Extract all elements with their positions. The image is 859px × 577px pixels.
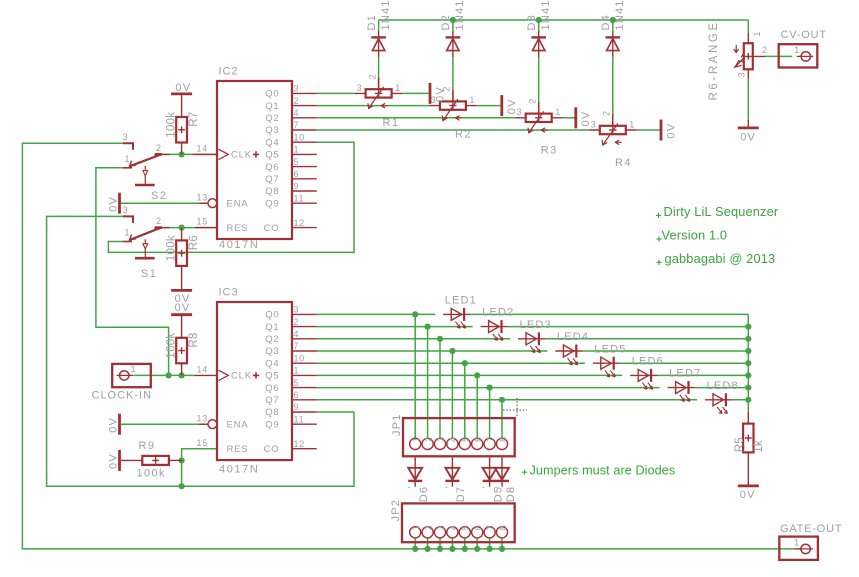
svg-text:1: 1 bbox=[629, 119, 634, 129]
IC3 left pin stubs bbox=[195, 374, 218, 376]
svg-text:2: 2 bbox=[294, 96, 300, 106]
svg-text:2: 2 bbox=[528, 99, 538, 104]
svg-text:Q0: Q0 bbox=[265, 310, 279, 321]
junction R8 bottom on CLK3 wire bbox=[179, 372, 185, 378]
switch S2 lever bbox=[130, 155, 161, 167]
junction gate rail bbox=[474, 546, 480, 552]
connector GATE-OUT box bbox=[779, 537, 818, 560]
svg-text:0V: 0V bbox=[175, 302, 191, 314]
diode triangle bbox=[533, 39, 545, 51]
IC3 pin 6 stub bbox=[292, 399, 317, 401]
svg-text:15: 15 bbox=[197, 438, 209, 448]
svg-text:0V: 0V bbox=[506, 98, 518, 114]
svg-text:Q2: Q2 bbox=[265, 334, 279, 345]
trimmer potentiometer R6-RANGE body bbox=[744, 43, 753, 69]
resistor R9 body bbox=[142, 456, 169, 465]
wire D4 vertical to rail bbox=[612, 20, 614, 31]
wire R6-RANGE pin 3 to ground bbox=[747, 79, 749, 120]
svg-text:ENA: ENA bbox=[227, 419, 249, 430]
ground 0V symbol bbox=[118, 414, 121, 435]
svg-text:GATE-OUT: GATE-OUT bbox=[780, 523, 842, 535]
svg-text:CLK: CLK bbox=[231, 150, 252, 161]
svg-text:R9: R9 bbox=[139, 440, 156, 452]
wire IC2 ENA from 0V bbox=[121, 202, 208, 204]
JP1 pin 5 circle bbox=[459, 438, 470, 449]
svg-text:10: 10 bbox=[294, 132, 306, 142]
junction R9 on RES3 vertical bbox=[179, 457, 185, 463]
svg-text:1: 1 bbox=[395, 83, 400, 93]
switch S1 pin2 red stub bbox=[162, 227, 170, 229]
svg-text:1: 1 bbox=[131, 364, 136, 374]
diode pin stubs bbox=[451, 458, 453, 487]
IC2 pin 13 red stub bbox=[199, 202, 208, 204]
JP2 pin 4 circle bbox=[447, 527, 458, 538]
svg-text:D8: D8 bbox=[505, 486, 517, 502]
R6 top stub bbox=[181, 228, 183, 241]
wire IC2 output to trimmer pin 3 bbox=[317, 129, 589, 131]
wire diode to trimmer pin 2 bbox=[538, 57, 540, 102]
R9 left stub bbox=[121, 459, 142, 461]
JP2 pin 3 circle bbox=[434, 527, 445, 538]
svg-text:R6-RANGE: R6-RANGE bbox=[708, 20, 720, 100]
wire IC3 Q5 LED row bbox=[317, 374, 749, 376]
IC3 pin 9 stub bbox=[292, 411, 317, 413]
svg-text:Q4: Q4 bbox=[265, 137, 279, 148]
svg-text:0V: 0V bbox=[665, 123, 677, 139]
svg-text:3: 3 bbox=[123, 132, 128, 142]
svg-text:100k: 100k bbox=[165, 332, 177, 358]
wire net switch S2 pin 3 to bottom gate rail bbox=[22, 143, 794, 549]
svg-text:S2: S2 bbox=[151, 190, 167, 202]
IC2 pin 3 stub bbox=[292, 92, 317, 94]
svg-text:-: - bbox=[408, 482, 411, 492]
svg-text:LED4: LED4 bbox=[557, 331, 589, 343]
junction LED row 3 bbox=[437, 336, 443, 342]
junction gate rail bbox=[437, 546, 443, 552]
junction right bus bbox=[745, 360, 751, 366]
svg-text:Q3: Q3 bbox=[265, 346, 279, 357]
diode cathode bar bbox=[445, 480, 459, 482]
trimmer potentiometer R2 body bbox=[440, 101, 466, 109]
wire JP1 pin 4 drop bbox=[451, 351, 453, 438]
switch S1 actuator bbox=[144, 239, 146, 257]
IC3 pin 7 stub bbox=[292, 350, 317, 352]
IC3 pin 4 stub bbox=[292, 338, 317, 340]
svg-text:CLK: CLK bbox=[231, 371, 252, 382]
svg-text:4017N: 4017N bbox=[219, 464, 259, 476]
junction LED row 4 bbox=[449, 348, 455, 354]
svg-text:Q5: Q5 bbox=[265, 371, 279, 382]
diode cathode bar bbox=[531, 36, 546, 38]
diode pin stubs bbox=[501, 458, 503, 487]
IC3 pin ENA name and bubble bbox=[208, 420, 217, 429]
svg-text:12: 12 bbox=[294, 218, 306, 228]
wire gate rail red stub into GATE-OUT bbox=[794, 548, 801, 550]
svg-text:4: 4 bbox=[294, 329, 300, 339]
svg-text:LED2: LED2 bbox=[482, 307, 514, 319]
svg-text:1: 1 bbox=[294, 366, 300, 376]
R6-RANGE pin stubs bbox=[748, 33, 765, 79]
wire IC3 Q6 LED row bbox=[317, 387, 749, 389]
JP1 pin 1 circle bbox=[410, 438, 421, 449]
R1 pin stubs bbox=[355, 77, 403, 93]
R7 bottom stub bbox=[181, 143, 183, 155]
svg-text:3: 3 bbox=[357, 83, 362, 93]
svg-text:2: 2 bbox=[367, 74, 377, 79]
svg-text:Q6: Q6 bbox=[265, 383, 279, 394]
svg-text:1N4148: 1N4148 bbox=[380, 0, 392, 31]
svg-text:Q9: Q9 bbox=[265, 419, 279, 430]
svg-text:4: 4 bbox=[448, 437, 458, 442]
svg-text:LED5: LED5 bbox=[594, 343, 626, 355]
R2 pin stubs bbox=[429, 90, 477, 106]
connector CLOCK-IN box bbox=[112, 364, 151, 387]
svg-text:D2: D2 bbox=[440, 14, 452, 30]
wire trimmer pin 1 to ground bbox=[403, 92, 430, 94]
svg-text:13: 13 bbox=[197, 413, 209, 423]
svg-text:JP1: JP1 bbox=[391, 413, 403, 436]
connector CLOCK-IN pin circle bbox=[120, 371, 129, 380]
svg-text:10: 10 bbox=[294, 353, 306, 363]
ground 0V symbol bbox=[118, 450, 121, 471]
trimmer potentiometer R1 body bbox=[366, 89, 392, 97]
wire trimmer pin 1 to ground bbox=[637, 129, 661, 131]
wire rail down to R6-RANGE pin 1 bbox=[747, 20, 749, 33]
diode pin stubs bbox=[414, 458, 416, 487]
svg-text:Q1: Q1 bbox=[265, 101, 279, 112]
R6-RANGE ground pin stub bbox=[747, 120, 749, 127]
junction RES3 net joins Q8 net bbox=[179, 483, 185, 489]
diode triangle bbox=[483, 468, 497, 480]
svg-text:1: 1 bbox=[794, 538, 799, 548]
diode cathode bar bbox=[408, 480, 422, 482]
svg-text:1: 1 bbox=[752, 31, 762, 36]
wire IC3 RES to R9 and Q8 net bbox=[182, 449, 217, 487]
switch S2 pin 1 stub bbox=[123, 167, 132, 169]
junction gate rail bbox=[449, 546, 455, 552]
svg-text:0V: 0V bbox=[740, 132, 756, 144]
ground 0V below R6 bbox=[171, 289, 192, 292]
svg-text:RES: RES bbox=[227, 444, 249, 455]
R6 bottom stub to ground bbox=[181, 266, 183, 292]
junction gate rail bbox=[412, 546, 418, 552]
diode triangle bbox=[372, 39, 384, 51]
svg-text:LED3: LED3 bbox=[520, 319, 552, 331]
IC2 pin 9 stub bbox=[292, 190, 317, 192]
svg-text:1: 1 bbox=[411, 525, 421, 530]
svg-text:1N4148: 1N4148 bbox=[454, 0, 466, 31]
JP1 pin 6 circle bbox=[472, 438, 483, 449]
svg-text:-: - bbox=[445, 482, 448, 492]
wire IC2 output to trimmer pin 3 bbox=[317, 105, 429, 107]
LED2 symbol bbox=[481, 326, 508, 328]
wire R6-RANGE wiper to CV-OUT bbox=[765, 55, 792, 57]
svg-text:ENA: ENA bbox=[227, 198, 249, 209]
ground 0V symbol bbox=[500, 95, 503, 116]
junction right bus bbox=[745, 324, 751, 330]
svg-text:9: 9 bbox=[294, 402, 300, 412]
LED7 symbol bbox=[668, 387, 695, 389]
IC3 pin 13 red stub bbox=[199, 423, 208, 425]
svg-text:Q9: Q9 bbox=[265, 198, 279, 209]
svg-text:6: 6 bbox=[473, 525, 483, 530]
switch S1 pin 2 contact bbox=[155, 226, 163, 229]
wire net switch S1 pin 3 to IC3.Q8 and reset bbox=[47, 216, 354, 486]
wire JP1 pin 1 drop bbox=[414, 314, 416, 438]
svg-text:7: 7 bbox=[485, 437, 495, 442]
IC2 pin 11 stub bbox=[292, 202, 317, 204]
svg-text:Q1: Q1 bbox=[265, 322, 279, 333]
svg-text:Version 1.0: Version 1.0 bbox=[662, 228, 728, 243]
svg-text:14: 14 bbox=[197, 365, 209, 375]
wire IC3.Q8 stub to vertical bbox=[317, 411, 354, 413]
svg-text:4: 4 bbox=[294, 108, 300, 118]
svg-text:Q4: Q4 bbox=[265, 358, 279, 369]
diode triangle bbox=[445, 468, 459, 480]
ground 0V below R5 bbox=[738, 484, 759, 487]
switch S2 pin2 red stub bbox=[162, 153, 170, 155]
wire JP1 pin 3 drop bbox=[439, 339, 441, 439]
wire top supply rail from D1 to R6-RANGE bbox=[379, 19, 749, 21]
svg-text:D4: D4 bbox=[600, 14, 612, 30]
diode pin stubs bbox=[612, 31, 614, 57]
svg-text:1: 1 bbox=[794, 45, 799, 55]
IC2 pin 6 stub bbox=[292, 178, 317, 180]
IC3 pin 3 stub bbox=[292, 313, 317, 315]
svg-text:4: 4 bbox=[448, 525, 458, 530]
dashed cursor mark bbox=[503, 398, 527, 417]
pin header JP1 box bbox=[403, 418, 515, 456]
diode cathode bar bbox=[483, 480, 497, 482]
svg-text:6: 6 bbox=[294, 390, 300, 400]
R3 wiper arrow bbox=[529, 111, 544, 133]
IC IC2 4017N body bbox=[217, 81, 292, 239]
svg-text:6: 6 bbox=[294, 169, 300, 179]
svg-text:1: 1 bbox=[294, 145, 300, 155]
svg-text:2: 2 bbox=[294, 317, 300, 327]
svg-text:8: 8 bbox=[498, 525, 508, 530]
junction R7 bottom on CLK wire bbox=[179, 151, 185, 157]
LED8 light arrows bbox=[717, 407, 722, 414]
svg-text:S1: S1 bbox=[141, 268, 157, 280]
JP2 pin 7 circle bbox=[484, 527, 495, 538]
svg-text:gabbagabi @ 2013: gabbagabi @ 2013 bbox=[665, 251, 776, 266]
IC2 left pin stubs bbox=[193, 154, 217, 227]
IC3 pin 11 stub bbox=[292, 423, 317, 425]
R8 top stub bbox=[181, 315, 183, 338]
svg-text:2: 2 bbox=[423, 525, 433, 530]
wire JP1 pin 8 drop bbox=[501, 400, 503, 439]
svg-text:0V: 0V bbox=[580, 111, 592, 127]
title text Version 1.0 bbox=[656, 236, 661, 241]
switch S1 lever bbox=[130, 228, 161, 240]
junction gate rail bbox=[499, 546, 505, 552]
svg-text:Q8: Q8 bbox=[265, 186, 279, 197]
wire IC3 Q0 LED row bbox=[317, 313, 749, 315]
svg-text:Q7: Q7 bbox=[265, 174, 279, 185]
svg-text:0V: 0V bbox=[740, 489, 756, 501]
R4 pin stubs bbox=[589, 114, 637, 130]
wire IC2 RES from switch S1 bbox=[162, 227, 217, 229]
junction rail-D3 bbox=[536, 17, 542, 23]
svg-text:CV-OUT: CV-OUT bbox=[781, 29, 827, 41]
R5 bottom stub bbox=[747, 452, 749, 484]
svg-text:Q0: Q0 bbox=[265, 89, 279, 100]
svg-text:D6: D6 bbox=[418, 486, 430, 502]
svg-text:6: 6 bbox=[473, 437, 483, 442]
diode triangle bbox=[607, 39, 619, 51]
trimmer potentiometer R4 body bbox=[600, 126, 626, 134]
svg-text:3: 3 bbox=[123, 205, 128, 215]
svg-text:0V: 0V bbox=[107, 196, 119, 212]
svg-text:R6: R6 bbox=[188, 235, 200, 250]
connector CV-OUT pin circle bbox=[801, 52, 810, 61]
wire diode to trimmer pin 2 bbox=[612, 57, 614, 114]
wire JP2 pin 2 to gate rail bbox=[427, 538, 429, 549]
svg-text:R8: R8 bbox=[188, 332, 200, 347]
svg-text:Q7: Q7 bbox=[265, 395, 279, 406]
LED6 light arrows bbox=[642, 383, 647, 390]
svg-text:Q6: Q6 bbox=[265, 162, 279, 173]
LED4 symbol bbox=[555, 350, 582, 352]
JP1 pin 8 circle bbox=[496, 438, 507, 449]
trimmer potentiometer R3 body bbox=[526, 114, 552, 122]
wire D2 vertical to rail bbox=[452, 20, 454, 31]
svg-text:R7: R7 bbox=[188, 111, 200, 126]
svg-text:LED6: LED6 bbox=[632, 356, 664, 368]
note text Jumpers must are Diodes bbox=[522, 470, 527, 475]
svg-text:IC3: IC3 bbox=[219, 287, 239, 299]
svg-text:D3: D3 bbox=[526, 14, 538, 30]
svg-text:2: 2 bbox=[762, 45, 767, 55]
svg-text:7: 7 bbox=[485, 525, 495, 530]
diode pin stubs bbox=[452, 31, 454, 57]
IC2 pin 12 stub bbox=[292, 227, 317, 229]
svg-text:8: 8 bbox=[498, 437, 508, 442]
junction rail-D2 bbox=[450, 17, 456, 23]
switch S1 pin 1 stub bbox=[123, 241, 132, 243]
svg-text:14: 14 bbox=[197, 144, 209, 154]
IC3 pin 2 stub bbox=[292, 326, 317, 328]
svg-text:7: 7 bbox=[294, 120, 300, 130]
svg-text:9: 9 bbox=[294, 181, 300, 191]
wire net switch S2 pin 1 to IC3 clock bbox=[96, 168, 169, 376]
svg-text:12: 12 bbox=[294, 439, 306, 449]
svg-text:4017N: 4017N bbox=[219, 239, 259, 251]
svg-text:Jumpers must are Diodes: Jumpers must are Diodes bbox=[530, 464, 676, 478]
svg-text:0V: 0V bbox=[107, 417, 119, 433]
junction right bus bbox=[745, 372, 751, 378]
svg-text:1k: 1k bbox=[753, 440, 765, 453]
LED5 symbol bbox=[593, 362, 620, 364]
svg-text:1N4148: 1N4148 bbox=[614, 0, 626, 31]
svg-text:D1: D1 bbox=[366, 14, 378, 30]
wire JP1 pin 2 drop bbox=[427, 327, 429, 439]
wire JP2 pin 3 to gate rail bbox=[439, 538, 441, 549]
ground 0V symbol bbox=[660, 120, 663, 141]
junction LED row 5 bbox=[462, 360, 468, 366]
svg-text:1: 1 bbox=[555, 107, 560, 117]
junction gate rail bbox=[462, 546, 468, 552]
JP2 pin 1 circle bbox=[410, 527, 421, 538]
wire JP2 pin 4 to gate rail bbox=[451, 538, 453, 549]
diode pin stubs bbox=[538, 31, 540, 57]
svg-text:Q5: Q5 bbox=[265, 150, 279, 161]
wire IC3 Q7 LED row bbox=[317, 399, 749, 401]
LED7 light arrows bbox=[680, 395, 685, 402]
wire JP1 pin 7 drop bbox=[489, 388, 491, 439]
diode cathode bar bbox=[446, 36, 461, 38]
svg-text:100k: 100k bbox=[165, 235, 177, 261]
switch S1 pin 3 bracket bbox=[123, 216, 133, 223]
R2 wiper arrow bbox=[443, 99, 458, 121]
svg-text:1: 1 bbox=[125, 154, 130, 164]
JP1 pin 7 circle bbox=[484, 438, 495, 449]
junction LED row 6 bbox=[474, 372, 480, 378]
wire IC3 Q3 LED row bbox=[317, 350, 749, 352]
title text Dirty LiL Sequenzer bbox=[656, 213, 661, 218]
IC2 pin 10 stub bbox=[292, 141, 317, 143]
IC2 pin ENA name and bubble bbox=[208, 199, 217, 208]
switch S2 pin 3 bracket bbox=[123, 143, 133, 150]
diode pin stubs bbox=[378, 31, 380, 57]
pin header JP2 box bbox=[402, 503, 515, 542]
connector GATE-OUT pin circle bbox=[801, 544, 810, 553]
svg-text:CO: CO bbox=[264, 444, 280, 455]
LED3 light arrows bbox=[530, 346, 535, 353]
resistor R7 body bbox=[176, 117, 187, 143]
svg-text:11: 11 bbox=[294, 193, 305, 203]
junction LED row 7 bbox=[487, 385, 493, 391]
svg-text:Dirty LiL Sequenzer: Dirty LiL Sequenzer bbox=[664, 204, 779, 219]
diode cathode bar bbox=[495, 480, 509, 482]
diode triangle bbox=[447, 39, 459, 51]
svg-text:CLOCK-IN: CLOCK-IN bbox=[92, 390, 153, 402]
svg-text:R1: R1 bbox=[383, 117, 400, 129]
wire JP2 pin 1 to gate rail bbox=[414, 538, 416, 549]
svg-text:D7: D7 bbox=[455, 486, 467, 502]
wire diode to trimmer pin 2 bbox=[452, 57, 454, 90]
svg-text:100k: 100k bbox=[137, 468, 166, 480]
R1 wiper arrow bbox=[369, 87, 384, 109]
wire right bus to R5 bbox=[747, 314, 749, 411]
wire IC3 Q4 LED row bbox=[317, 362, 749, 364]
wire net IC2.Q4 to switch S1 pin 1 bbox=[108, 142, 354, 252]
wire IC3 Q2 LED row bbox=[317, 338, 749, 340]
IC2 pin 5 stub bbox=[292, 166, 317, 168]
svg-text:5: 5 bbox=[461, 437, 471, 442]
junction LED row 8 bbox=[499, 397, 505, 403]
LED1 light arrows bbox=[455, 322, 460, 329]
junction gate rail bbox=[487, 546, 493, 552]
wire JP2 pin 7 to gate rail bbox=[489, 538, 491, 549]
R8 bottom stub bbox=[181, 363, 183, 375]
IC3 pin 12 stub bbox=[292, 448, 317, 450]
svg-text:Q8: Q8 bbox=[265, 407, 279, 418]
svg-text:LED8: LED8 bbox=[707, 380, 739, 392]
diode triangle bbox=[408, 468, 422, 480]
IC3 pin 10 stub bbox=[292, 362, 317, 364]
wire trimmer pin 1 to ground bbox=[563, 117, 576, 119]
LED6 symbol bbox=[630, 374, 657, 376]
svg-text:3: 3 bbox=[737, 72, 747, 77]
JP2 pin 8 circle bbox=[496, 527, 507, 538]
IC3 pin 5 stub bbox=[292, 387, 317, 389]
wire JP2 pin 8 to gate rail bbox=[501, 538, 503, 549]
R5 top stub bbox=[747, 412, 749, 424]
JP2 pin 6 circle bbox=[472, 527, 483, 538]
R9 right stub bbox=[169, 459, 182, 461]
